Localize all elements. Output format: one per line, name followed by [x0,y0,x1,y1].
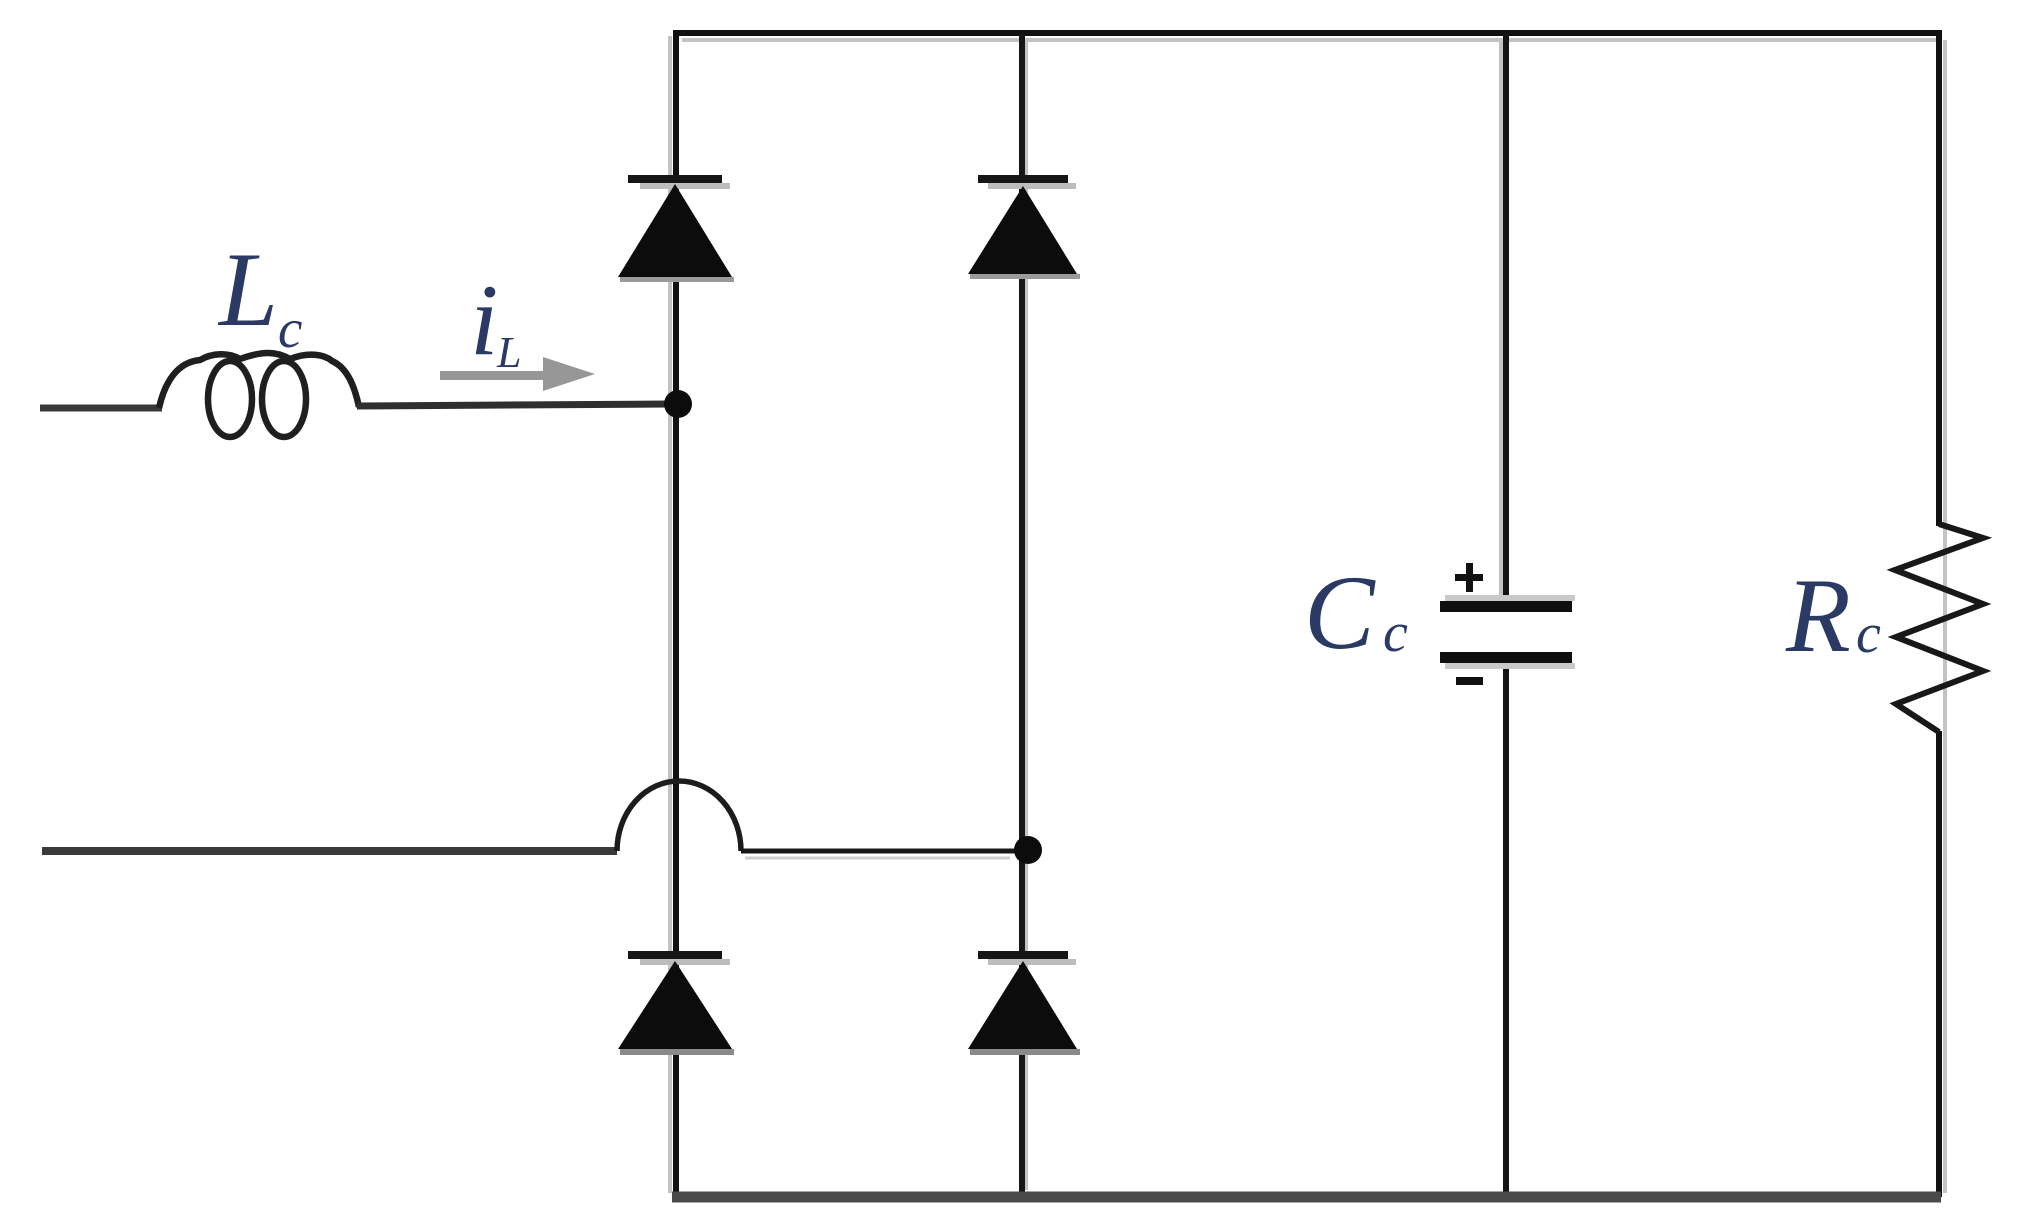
node A junction dot [664,390,692,418]
node B junction dot [1014,836,1042,864]
diode D2 cathode bar [978,175,1068,183]
svg-text:L: L [496,328,521,377]
inductor L_c left lead [40,405,162,412]
wire hop to node B halo [745,857,1010,860]
wire hop over left leg [617,781,741,851]
capacitor C_c top plate halo [1445,595,1575,601]
capacitor C_c bottom plate [1440,652,1572,663]
svg-text:c: c [1383,602,1408,664]
label C_c [1304,554,1408,671]
wire right vertical upper (to resistor) [1936,30,1942,526]
capacitor C_c top plate [1440,601,1572,612]
svg-text:C: C [1304,554,1376,671]
wire right vertical lower (from resistor) [1936,731,1942,1197]
diode D3 base shadow [620,1049,734,1055]
wire bottom bus [672,1192,1941,1203]
wire lower-left horizontal [42,847,617,855]
diode D1 base shadow [620,277,734,282]
svg-text:L: L [217,231,278,348]
wire capacitor vertical halo [1499,40,1503,598]
diode D3 cathode bar halo [640,959,730,965]
resistor R_c zigzag [1895,524,1983,732]
wire capacitor vertical upper [1503,33,1509,603]
current arrow i_L [440,357,595,391]
capacitor minus sign [1456,677,1483,685]
wire top bus halo [682,38,1936,42]
svg-text:c: c [1856,603,1881,665]
wire hop to node B [741,849,1032,854]
diode D3 triangle [618,961,732,1049]
wire capacitor vertical lower [1503,661,1509,1197]
wire mid vertical (bridge right leg) [1019,33,1025,1197]
diode D1 triangle [618,184,732,277]
wire left vertical halo [668,36,672,1193]
diode D2 cathode bar halo [988,183,1076,189]
wire left vertical (bridge left leg) [673,30,679,1197]
diode D4 triangle [968,961,1077,1049]
diode D2 base shadow [970,274,1080,279]
diode D1 cathode bar halo [640,183,730,189]
inductor L_c coil [159,353,359,437]
diode D4 cathode bar halo [988,959,1076,965]
wire right vertical halo [1943,40,1947,1193]
diode D4 cathode bar [978,951,1068,959]
diode D1 cathode bar [628,175,722,183]
diode D4 base shadow [970,1049,1080,1055]
capacitor C_c bottom plate halo [1445,663,1575,669]
label i_L [470,264,521,377]
wire mid vertical halo [1024,40,1028,1190]
label R_c [1785,557,1881,674]
wire top bus [674,30,1941,36]
svg-text:c: c [278,298,302,359]
diode D3 cathode bar [628,951,722,959]
label L_c [217,231,302,359]
wire inductor to node A [357,404,670,406]
svg-text:i: i [470,264,498,377]
diode D2 triangle [968,186,1077,274]
svg-text:R: R [1785,557,1851,674]
capacitor plus sign [1455,563,1483,592]
